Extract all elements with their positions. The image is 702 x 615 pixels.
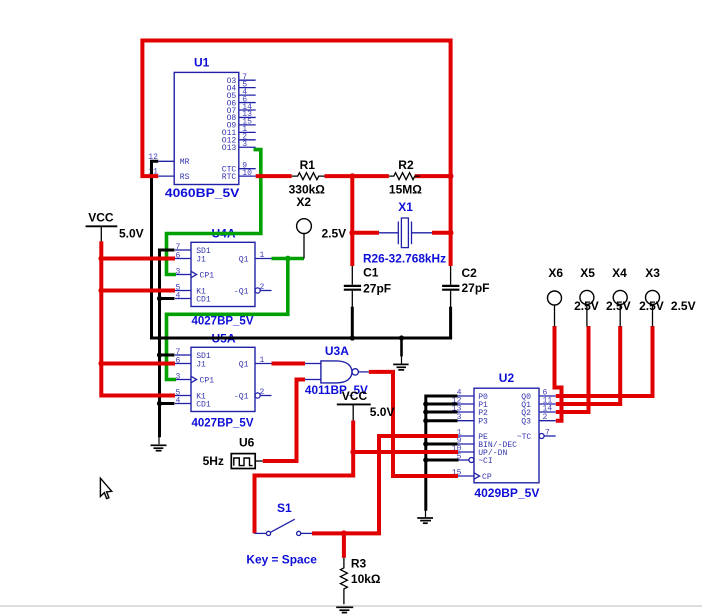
node red junction X1 right (448, 230, 454, 236)
svg-text:-Q1: -Q1 (234, 287, 249, 296)
svg-text:X5: X5 (580, 266, 595, 280)
node black junction C1 bus (350, 335, 355, 340)
svg-text:R2: R2 (398, 158, 414, 172)
svg-text:R1: R1 (300, 158, 316, 172)
svg-text:X4: X4 (612, 266, 627, 280)
wire red U2.Q2 to probe X5 (556, 326, 589, 412)
svg-text:27pF: 27pF (363, 281, 391, 295)
mouse cursor (100, 478, 111, 498)
counter U2 4029BP_5V (452, 371, 556, 500)
probe X3 (646, 290, 660, 326)
wire red main loop RS to top to right column (142, 41, 450, 267)
node black junction U5A.CD1 (157, 401, 162, 406)
svg-text:1: 1 (260, 356, 265, 365)
svg-text:C1: C1 (363, 266, 379, 280)
svg-text:U3A: U3A (325, 344, 349, 358)
svg-text:2.5V: 2.5V (639, 299, 664, 313)
svg-text:2.5V: 2.5V (606, 299, 631, 313)
svg-text:2.5V: 2.5V (322, 226, 347, 240)
svg-text:VCC: VCC (88, 211, 114, 225)
ground under R3 (336, 607, 353, 612)
node black junction U4A.CD1 (157, 296, 162, 301)
svg-text:X2: X2 (296, 195, 311, 209)
svg-text:CD1: CD1 (196, 400, 211, 409)
resistor R2 15M (389, 173, 420, 180)
svg-text:2: 2 (543, 413, 548, 422)
node black junction U5A.SD1 (157, 352, 162, 357)
resistor R3 10k (340, 558, 347, 605)
svg-text:3: 3 (242, 140, 247, 149)
svg-text:S1: S1 (277, 501, 292, 515)
wire red junction column down to C1 (350, 176, 354, 266)
wire black U2 parallel input bus (426, 396, 458, 511)
wire red U5A.Q1 to U3A input A (272, 362, 306, 366)
svg-text:X6: X6 (548, 266, 563, 280)
wire red R3 stub (342, 533, 346, 557)
power VCC symbol mid (337, 404, 371, 420)
node red junction VCC2 (350, 449, 356, 455)
wire black U1.MR down and across to C1 C2 ground bus (152, 161, 453, 338)
svg-text:5.0V: 5.0V (119, 227, 144, 241)
window bottom border line (0, 605, 702, 607)
power VCC symbol left (86, 226, 118, 241)
wire red U3A output to U2.CP (369, 372, 458, 476)
svg-text:X3: X3 (645, 266, 660, 280)
node black junction U2.CI (423, 457, 428, 462)
wire green U4A.Q1 to U5A.CP1 (167, 259, 288, 380)
node red junction R3 top (341, 530, 347, 536)
svg-text:1: 1 (260, 251, 265, 260)
svg-text:15MΩ: 15MΩ (389, 183, 422, 197)
svg-text:~CI: ~CI (478, 457, 493, 466)
node black junction U2.P2 (423, 409, 428, 414)
resistor R1 330k (292, 173, 325, 180)
svg-text:J1: J1 (196, 255, 206, 264)
svg-text:4060BP_5V: 4060BP_5V (165, 186, 240, 200)
wire red VCC bus left (101, 241, 175, 395)
svg-text:5Hz: 5Hz (203, 454, 224, 468)
wire red U6 to U3A input B (263, 380, 305, 462)
probe X5 (580, 290, 594, 326)
svg-text:CP1: CP1 (200, 376, 215, 385)
wire red U2.Q3 to probe X6 (555, 326, 562, 421)
wire red VCC2 to U2.UP-DN (255, 421, 354, 534)
svg-text:4029BP_5V: 4029BP_5V (474, 486, 539, 500)
wire red U1.RTC to R1 (256, 174, 292, 178)
svg-text:6: 6 (176, 356, 181, 365)
svg-text:RTC: RTC (222, 173, 237, 182)
node black junction U2.P1 (423, 401, 428, 406)
wire red R1 to R2 (325, 174, 389, 178)
svg-text:P2: P2 (478, 409, 488, 418)
svg-text:J1: J1 (196, 360, 206, 369)
wire red U2.Q0 to probe X3 (556, 326, 653, 396)
probe X4 (613, 290, 627, 326)
ground under U2 input bus (417, 510, 433, 523)
capacitor C1 27pF (344, 266, 361, 308)
svg-text:CP1: CP1 (200, 271, 215, 280)
svg-text:U1: U1 (194, 56, 210, 70)
svg-text:Key = Space: Key = Space (246, 552, 317, 566)
svg-text:Q3: Q3 (521, 418, 531, 427)
svg-text:U6: U6 (239, 436, 255, 450)
wire red U2.Q1 to probe X4 (556, 326, 620, 404)
svg-text:4: 4 (176, 396, 181, 405)
wire black SD CD bus left of U4A U5A (160, 250, 175, 437)
flip-flop U4A 4027BP_5V (175, 227, 272, 328)
probe X2 (297, 219, 312, 259)
svg-text:10: 10 (242, 169, 252, 178)
wire green U4A.Q1 to X2 probe (272, 257, 305, 261)
svg-text:27pF: 27pF (462, 281, 490, 295)
svg-text:VCC: VCC (342, 389, 368, 403)
svg-text:CD1: CD1 (196, 295, 211, 304)
svg-text:2: 2 (260, 283, 265, 292)
node green junction at Q1 (285, 256, 291, 262)
svg-text:C2: C2 (462, 266, 478, 280)
svg-text:O13: O13 (222, 144, 237, 153)
svg-text:4: 4 (176, 291, 181, 300)
svg-text:2: 2 (260, 388, 265, 397)
node red junction R2 right (448, 173, 454, 179)
svg-text:RS: RS (180, 173, 190, 182)
svg-text:7: 7 (545, 429, 550, 438)
svg-text:U2: U2 (499, 371, 515, 385)
wire red R2 to right column (415, 174, 451, 178)
svg-text:P3: P3 (478, 418, 488, 427)
svg-text:Q1: Q1 (239, 360, 249, 369)
node black junction U2.P3 (423, 418, 428, 423)
wire green U1.O13 to U4A.CP1 (167, 150, 261, 275)
node black junction U2.BIN (423, 441, 428, 446)
node black junction ground stub (399, 335, 404, 340)
wire red U2.PE to switch (312, 436, 458, 533)
ground under SD CD bus (151, 437, 167, 451)
wire black ground stub below C1 C2 bus (400, 338, 403, 356)
svg-text:Q2: Q2 (521, 409, 531, 418)
svg-text:6: 6 (176, 251, 181, 260)
svg-text:4027BP_5V: 4027BP_5V (192, 416, 254, 430)
svg-text:3: 3 (176, 267, 181, 276)
wire red X1 right lead (432, 231, 451, 235)
wire black C1 drop to ground bus (351, 307, 354, 339)
svg-text:2.5V: 2.5V (574, 299, 599, 313)
svg-text:CP: CP (482, 473, 492, 482)
node red junction VCC J1 (98, 256, 104, 262)
wire red X1 left lead (352, 231, 379, 235)
node red junction R1 R2 (349, 173, 355, 179)
node red junction X1 left (349, 230, 355, 236)
op-amp U1 4060BP_5V counter IC (148, 56, 255, 201)
switch S1 Key Space (255, 519, 312, 535)
node red junction VCC K1 (98, 288, 104, 294)
svg-text:2.5V: 2.5V (671, 299, 696, 313)
svg-text:X1: X1 (398, 200, 413, 214)
capacitor C2 27pF (442, 266, 459, 308)
svg-text:14: 14 (543, 405, 553, 414)
svg-text:~TC: ~TC (517, 433, 532, 442)
svg-text:R26-32.768kHz: R26-32.768kHz (363, 251, 446, 265)
clock source U6 5Hz (203, 436, 263, 469)
svg-text:Q1: Q1 (239, 255, 249, 264)
nand gate U3A 4011BP_5V (305, 344, 369, 397)
probe X6 (548, 291, 562, 327)
flip-flop U5A 4027BP_5V (175, 332, 272, 430)
svg-text:5.0V: 5.0V (370, 405, 395, 419)
svg-text:10kΩ: 10kΩ (351, 572, 381, 586)
node red junction VCC J1b (98, 361, 104, 367)
svg-text:R3: R3 (351, 557, 367, 571)
crystal X1 R26-32.768kHz (379, 218, 432, 248)
svg-text:MR: MR (180, 158, 190, 167)
svg-text:3: 3 (176, 372, 181, 381)
svg-text:-Q1: -Q1 (234, 392, 249, 401)
ground under C1 C2 bus (393, 356, 408, 370)
